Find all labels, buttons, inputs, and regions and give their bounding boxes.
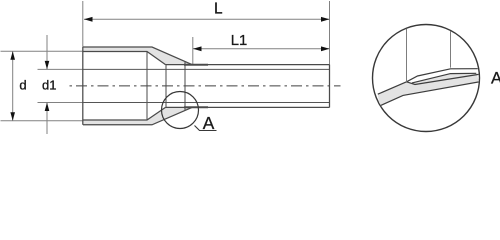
arrow d top (pointing up) xyxy=(10,51,15,60)
tube outer top line xyxy=(166,64,330,66)
collar outer bottom line xyxy=(83,107,192,124)
bore bottom line xyxy=(83,102,330,104)
collar inner top line xyxy=(83,52,166,65)
tube outer bottom line thicker segment (insulation film tail) xyxy=(184,106,208,108)
arrow L1 left xyxy=(193,46,202,51)
svg-text:L1: L1 xyxy=(231,33,247,49)
arrow L left xyxy=(84,17,93,22)
collar inner bottom line xyxy=(83,107,166,120)
svg-text:d1: d1 xyxy=(42,77,56,92)
detail vertical v2 xyxy=(450,31,452,68)
svg-text:A: A xyxy=(491,69,500,87)
svg-text:d: d xyxy=(19,78,26,93)
detail top line R1 (v1 foot to arc through v2 foot) xyxy=(407,69,478,82)
arrow L1 right xyxy=(321,46,330,51)
detail view circle A xyxy=(373,25,480,132)
dimension line d (vertical at x=12.7) xyxy=(12,51,14,121)
arrow d1 bottom (pointing up at bore bottom) xyxy=(45,103,50,112)
dimension line d1 bottom shaft xyxy=(46,103,48,135)
detail band bottom edge S2 xyxy=(380,82,480,106)
detail indicator circle A on main view xyxy=(162,92,199,129)
centerline (dash-dot) xyxy=(70,85,341,87)
detail band top edge R2 xyxy=(412,73,476,83)
bore top line xyxy=(83,68,330,70)
detail vertical v1 xyxy=(406,28,408,82)
svg-text:L: L xyxy=(214,0,223,17)
leader line to label A xyxy=(195,126,217,131)
extension line left of d (top, y=51) xyxy=(1,50,84,52)
arrow d bottom (pointing down) xyxy=(10,112,15,121)
ferrule insulation sleeve bottom wall (grey band) xyxy=(83,107,192,124)
svg-text:A: A xyxy=(203,113,215,133)
tube end face xyxy=(329,65,331,108)
cone/tube junction vertical (x=166) xyxy=(165,65,167,108)
extension line L/L1 right (above tube end, x=329.5) xyxy=(329,1,331,65)
taper start vertical (x=147) xyxy=(146,52,148,121)
dimension line d1 top shaft xyxy=(46,35,48,69)
insulation end vertical (x=185) xyxy=(184,62,186,111)
extension line L1 left (x=192.8) xyxy=(192,37,194,65)
dimension line L xyxy=(84,18,330,20)
detail insulation band (grey fill) xyxy=(378,73,480,106)
collar left edge xyxy=(82,47,84,125)
arrow d1 top (pointing down at bore top) xyxy=(45,61,50,70)
extension line L left (above collar, x=83) xyxy=(82,1,84,47)
dimension line L1 xyxy=(193,48,330,50)
extension line d1 top xyxy=(38,68,84,70)
arrow L right xyxy=(321,17,330,22)
tube outer bottom line xyxy=(166,106,330,108)
tube outer top line thicker segment (insulation film tail) xyxy=(184,64,208,66)
extension line left of d (bottom, y=121) xyxy=(1,120,84,122)
extension line d1 bottom xyxy=(38,102,84,104)
detail insulation inner edge (steep, from arc to v1 foot) xyxy=(378,82,407,94)
detail band inner line R3 xyxy=(407,74,479,84)
collar outer top line xyxy=(83,47,192,65)
ferrule insulation sleeve top wall (grey band) xyxy=(83,47,192,65)
